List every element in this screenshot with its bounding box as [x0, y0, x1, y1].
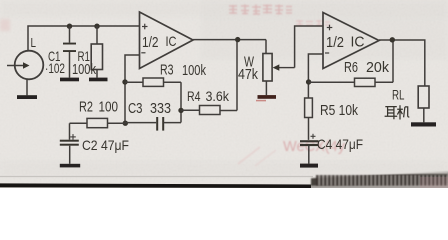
signal source L circle: [15, 51, 44, 80]
ground (source): [17, 95, 37, 99]
node dot at R1 top: [94, 24, 99, 29]
node dot on output: [390, 37, 395, 42]
fuzzy striped band (right): [311, 171, 448, 188]
svg-text:R3: R3: [160, 63, 174, 79]
svg-text:·102: ·102: [45, 60, 65, 76]
svg-text:100: 100: [99, 100, 119, 116]
pink watermark smudge top-left: [0, 19, 10, 31]
svg-text:IC: IC: [166, 33, 177, 49]
op-amp U2 - input pin mark: [325, 52, 329, 54]
faint upper scan line: [0, 176, 313, 177]
op-amp U1 - input pin mark: [141, 52, 145, 54]
svg-text:C4 47μF: C4 47μF: [317, 136, 363, 152]
ground (pot, reddish): [256, 95, 276, 101]
pink watermark bottom: [238, 138, 345, 166]
bottom scan band: [0, 171, 448, 188]
arrow inside source: [7, 65, 24, 67]
label 耳 (drawn strokes): [385, 107, 398, 120]
potentiometer W 47k body: [263, 54, 272, 82]
node dot (R4 tap): [178, 108, 183, 113]
C4 polarity + mark: [311, 134, 316, 139]
resistor RL (headphone): [418, 86, 429, 108]
ground (C1): [60, 78, 79, 82]
wire: R2 to C2: [69, 123, 71, 139]
resistor R6: [308, 81, 354, 83]
capacitor C4 (electrolytic): [300, 140, 319, 146]
svg-text:1/2: 1/2: [326, 34, 344, 51]
svg-text:20k: 20k: [366, 60, 390, 76]
svg-text:47k: 47k: [238, 67, 259, 83]
svg-text:L: L: [31, 35, 37, 50]
wire: source to ground: [26, 79, 28, 95]
svg-text:3.6k: 3.6k: [206, 88, 230, 104]
node dot on output rail: [235, 37, 240, 42]
wire: source top riser and top rail to op-amp1 + input: [28, 26, 140, 51]
label 1/2 IC (U1): [142, 33, 177, 51]
label 机 (drawn strokes): [397, 105, 409, 119]
wire: R4 up to output rail: [236, 40, 238, 111]
ground (RL): [411, 122, 436, 126]
label 1/2 IC (U2): [326, 34, 365, 51]
resistor R5: [305, 98, 313, 118]
op-amp U2: [323, 13, 379, 69]
op-amp U1 (1/2 IC): [140, 12, 194, 69]
pink watermark top (blurred illegible stamp): [229, 5, 330, 27]
wire: RL to ground: [423, 108, 425, 122]
svg-text:333: 333: [150, 100, 171, 117]
node dot (C3/R2 tap): [123, 121, 128, 126]
svg-text:R2: R2: [79, 100, 93, 116]
wire: R5 to C4: [308, 118, 310, 140]
svg-text:R4: R4: [187, 88, 201, 104]
svg-text:IC: IC: [351, 34, 365, 50]
svg-text:100k: 100k: [72, 62, 97, 78]
ground (C2): [60, 164, 80, 168]
ground (R1): [89, 78, 108, 82]
wire: R6 up to output: [392, 40, 394, 83]
wire: feedback right leg: [180, 82, 182, 122]
resistor R3: [125, 81, 143, 83]
wire: C4 to ground: [308, 146, 310, 164]
svg-text:R5 10k: R5 10k: [320, 103, 359, 119]
ground (C4): [300, 164, 318, 168]
crisp black bar (left): [0, 183, 313, 188]
wire: wiper riser to op-amp2 + input: [295, 26, 323, 68]
svg-text:R6: R6: [344, 60, 358, 76]
svg-text:C2 47μF: C2 47μF: [82, 137, 129, 153]
node A dot (R3 tap): [122, 79, 127, 84]
op-amp U1 + input pin mark: [142, 24, 148, 30]
wire: op-amp1 inverting input to node A: [125, 55, 140, 123]
capacitor C1: [69, 26, 71, 43]
wire: C2 to ground: [69, 146, 71, 164]
svg-text:1/2: 1/2: [142, 34, 159, 51]
resistor R1: [96, 26, 98, 44]
schematic ink: [7, 12, 436, 168]
resistor R4: [181, 109, 200, 111]
wire: rail down to potentiometer top: [265, 40, 267, 54]
wire: op-amp2 output rail to RL: [379, 40, 425, 86]
svg-text:100k: 100k: [182, 63, 207, 79]
paper background texture: [0, 0, 448, 188]
svg-text:C3: C3: [128, 100, 143, 117]
C2 polarity + mark: [70, 134, 76, 140]
op-amp U2 + input pin mark: [327, 25, 333, 31]
node dot (R6/R5 tap): [306, 79, 311, 84]
wire: op-amp1 output rail: [193, 39, 266, 41]
capacitor C3: [125, 122, 156, 124]
resistor R2: [108, 122, 126, 124]
wire: pot to ground: [265, 81, 267, 95]
svg-text:RL: RL: [392, 88, 405, 103]
under-bar gray: [0, 187, 313, 188]
capacitor C2 (electrolytic): [60, 140, 79, 146]
wire: op-amp2 inverting input down: [308, 54, 323, 98]
node dot at C1 top: [67, 24, 72, 29]
potentiometer wiper arrow: [273, 64, 295, 70]
